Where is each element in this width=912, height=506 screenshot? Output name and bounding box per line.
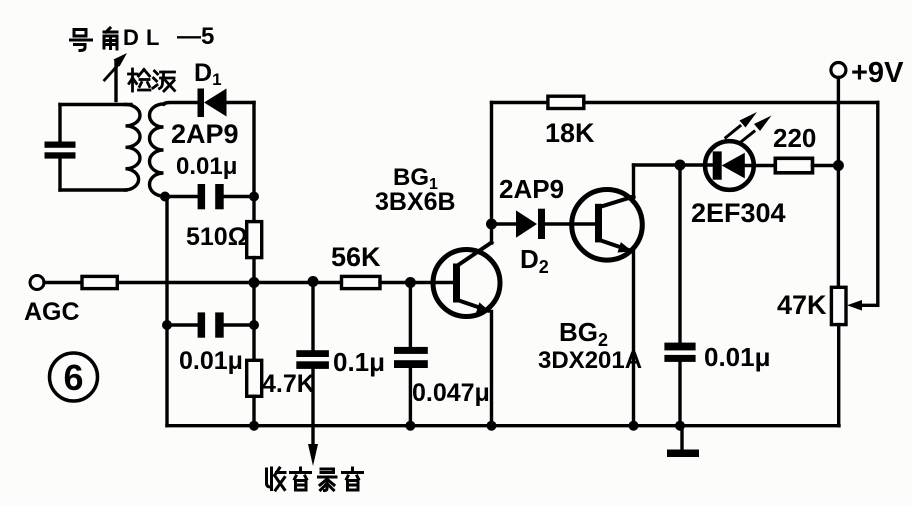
svg-text:47K: 47K <box>777 290 827 320</box>
wire: left vertical rail <box>165 197 168 426</box>
terminal +9V <box>831 63 846 78</box>
wire: middle vertical to cap node <box>252 283 255 361</box>
inductor L1 secondary coil <box>150 104 164 196</box>
node: D2 anode junction <box>486 219 497 230</box>
wire: tuned loop left lower <box>58 159 61 191</box>
LED 2EF304 <box>705 141 754 190</box>
resistor R-agc <box>82 276 117 288</box>
wire: 0.047u branch lower <box>409 368 412 426</box>
node: 220 at +9V rail <box>833 160 844 171</box>
capacitor C tuned (plates) <box>45 142 76 159</box>
wire: to lower cap <box>167 323 198 326</box>
svg-text:56K: 56K <box>331 242 381 272</box>
wire: middle vertical upper <box>252 197 255 222</box>
resistor 18K <box>548 96 584 108</box>
resistor 4.7K <box>247 360 262 396</box>
svg-text:0.01μ: 0.01μ <box>179 347 243 375</box>
wire: tuned loop bottom <box>60 188 126 191</box>
node: 510 bottom <box>249 277 260 288</box>
svg-text:220: 220 <box>773 123 816 153</box>
node: box bottom right <box>249 192 259 202</box>
wire: D2 to BG2 base <box>545 222 597 225</box>
svg-text:2AP9: 2AP9 <box>499 174 564 204</box>
antenna stub <box>114 62 117 101</box>
wire: middle vertical to AGC line <box>252 258 255 283</box>
wire: D2 anode lead <box>492 222 517 225</box>
top rail left <box>492 101 548 104</box>
svg-text:0.01μ: 0.01μ <box>704 342 771 372</box>
node: 0.1u top <box>308 276 319 287</box>
capacitor 0.047u (plates) <box>394 347 428 368</box>
node: secondary bottom junction <box>160 192 170 202</box>
wire: 220 to rail <box>813 164 839 167</box>
LED light arrow 2 <box>740 116 772 144</box>
label 收音录音 <box>267 468 363 491</box>
resistor 220 <box>775 158 812 173</box>
diode D2 <box>516 209 545 239</box>
potentiometer 47K <box>831 287 846 324</box>
capacitor 0.01u right (plates) <box>664 343 695 362</box>
svg-text:0.047μ: 0.047μ <box>412 379 490 407</box>
svg-text:L: L <box>146 25 159 50</box>
svg-text:4.7K: 4.7K <box>262 370 315 398</box>
svg-text:D: D <box>123 25 139 50</box>
node: lower cap left <box>162 320 172 330</box>
node: lower cap right <box>249 320 259 330</box>
wire: cap branch vertical <box>678 165 681 343</box>
svg-text:6: 6 <box>63 357 83 398</box>
svg-text:0.01μ: 0.01μ <box>176 153 237 180</box>
inductor L1 primary coil <box>126 105 141 191</box>
antenna arrow <box>105 53 128 80</box>
wire: box right vertical <box>252 103 255 197</box>
wiper arrow of 47K <box>847 300 878 311</box>
transistor BG2 <box>572 190 643 261</box>
wire: LED to 220 <box>745 164 776 167</box>
node: 0.047u at rail <box>405 421 415 431</box>
wire: 56K to BG1 base <box>380 281 453 284</box>
circled 6 <box>50 353 98 401</box>
top rail right <box>584 101 878 104</box>
node: 0.047u top <box>405 277 416 288</box>
node: 4.7K at rail <box>249 421 259 431</box>
wire: lower cap right <box>224 323 254 326</box>
bottom rail <box>167 424 839 427</box>
wire: AGC line <box>117 281 341 284</box>
title 号角DL-5 <box>71 23 215 51</box>
capacitor C2 0.01u (plates) <box>198 184 224 209</box>
wire: cap C2 right <box>224 195 254 198</box>
wire: tuned loop top <box>60 103 131 106</box>
wire: 0.1u branch upper <box>311 283 314 351</box>
svg-text:3BX6B: 3BX6B <box>375 188 456 216</box>
svg-text:2AP9: 2AP9 <box>171 119 239 149</box>
node: 0.01u right cap top <box>675 160 686 171</box>
wire: AGC to resistor <box>44 281 82 284</box>
transistor BG1 <box>433 243 500 317</box>
resistor 56K <box>342 276 381 288</box>
arrow to 收音录音 <box>308 426 318 466</box>
label 检波 <box>129 69 175 91</box>
wire: cap to rail <box>678 362 681 426</box>
wire: BG2 emitter vertical <box>632 252 635 426</box>
wire: BG1 emitter vertical <box>490 312 493 426</box>
resistor 510 ohm <box>247 222 262 258</box>
wire: +9V down <box>837 78 840 288</box>
wire: D1 to corner <box>227 101 255 104</box>
wire: tuned loop left upper <box>58 105 61 142</box>
wire: 0.1u branch lower <box>311 369 314 426</box>
wire: right drop to wiper <box>876 103 879 306</box>
wire: 0.047u branch upper <box>409 283 412 347</box>
terminal AGC <box>30 276 44 290</box>
wire: LED row left <box>634 163 713 166</box>
capacitor C3 0.01u lower (plates) <box>198 312 224 337</box>
capacitor 0.1u (plates) <box>296 350 329 369</box>
svg-text:3DX201A: 3DX201A <box>538 347 642 374</box>
wire: BG1 collector vertical <box>490 103 493 244</box>
svg-text:AGC: AGC <box>24 298 80 326</box>
diode D1 <box>198 89 227 118</box>
svg-text:510Ω: 510Ω <box>186 223 248 251</box>
ground <box>667 426 699 457</box>
node: cap at rail <box>675 421 685 431</box>
node: BG1 emitter at rail <box>487 421 497 431</box>
wire: BG2 collector vertical <box>632 165 635 198</box>
svg-text:—5: —5 <box>177 23 214 50</box>
wire: 4.7K bottom <box>252 396 255 425</box>
wire: secondary top to D1 <box>164 103 198 105</box>
LED light arrow 1 <box>726 112 757 138</box>
svg-text:2EF304: 2EF304 <box>691 198 786 228</box>
svg-text:+9V: +9V <box>851 57 904 89</box>
node: BG2 emitter at rail <box>629 421 639 431</box>
svg-text:0.1μ: 0.1μ <box>333 347 385 377</box>
wire: 47K bottom to rail <box>837 325 840 426</box>
wire: to cap C2 <box>165 195 198 198</box>
svg-text:18K: 18K <box>545 118 595 148</box>
